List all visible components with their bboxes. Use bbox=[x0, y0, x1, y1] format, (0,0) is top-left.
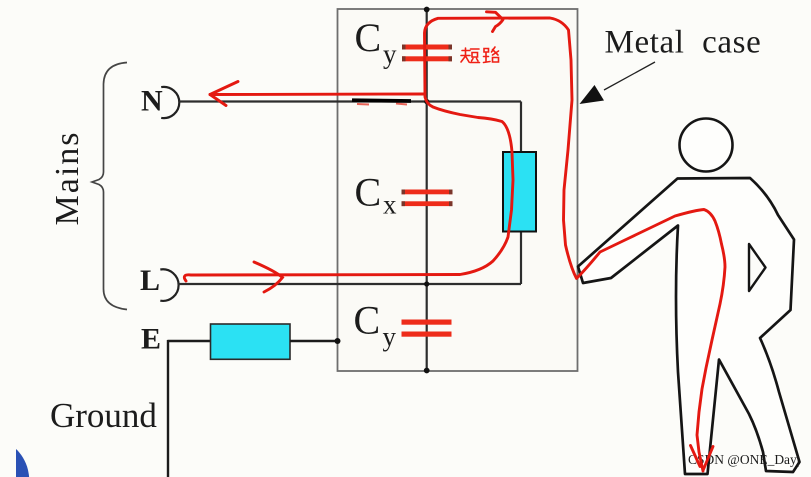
svg-text:C: C bbox=[355, 170, 382, 215]
capacitor Cy bottom (plates) bbox=[402, 320, 452, 337]
node: cap string at case top bbox=[424, 7, 430, 13]
metal case box (EMI filter enclosure) bbox=[338, 9, 578, 371]
svg-text:Metal case: Metal case bbox=[605, 25, 762, 61]
wire N (N terminal to inner circuit, top edge) bbox=[179, 100, 521, 102]
svg-text:Ground: Ground bbox=[50, 396, 157, 435]
black marker stroke over N wire bbox=[352, 100, 411, 104]
svg-text:C: C bbox=[354, 298, 381, 343]
label Cy bottom bbox=[354, 298, 397, 352]
person: head bbox=[680, 119, 733, 172]
inductor (cyan block) on earth line bbox=[211, 324, 291, 359]
label Cy top bbox=[355, 15, 398, 69]
node: cap string at case bottom bbox=[424, 368, 430, 374]
load block (cyan) on right branch bbox=[503, 152, 536, 232]
label 短路 (short circuit, drawn glyphs) bbox=[461, 47, 499, 63]
svg-text:L: L bbox=[140, 264, 160, 297]
wire load branch (right vertical of inner circuit) bbox=[520, 102, 522, 285]
node: earth connection to case bbox=[335, 338, 341, 344]
svg-text:E: E bbox=[141, 323, 161, 356]
svg-text:y: y bbox=[383, 322, 397, 352]
wire E to inductor bbox=[168, 340, 212, 342]
node: cap string at L wire bbox=[424, 281, 429, 286]
ground wire (vertical) bbox=[167, 340, 169, 477]
person: body outline bbox=[578, 178, 800, 474]
blue logo corner bbox=[16, 449, 29, 477]
svg-text:Mains: Mains bbox=[49, 131, 86, 226]
wire inductor to case bbox=[290, 340, 337, 342]
person: bent arm gap (triangle) bbox=[749, 244, 766, 291]
red current arrow out of N bbox=[210, 82, 425, 106]
capacitor Cy top (plates) bbox=[402, 45, 452, 62]
label Cx bbox=[355, 170, 398, 220]
svg-text:N: N bbox=[141, 85, 163, 118]
wire L (L terminal to inner circuit, bottom edge) bbox=[178, 283, 521, 285]
wire capacitor string (vertical through filter) bbox=[426, 9, 428, 371]
red current path: L line through Cy short to case and person bbox=[184, 18, 725, 471]
terminal N connector arc bbox=[161, 87, 179, 118]
pointer arrow to metal case bbox=[580, 62, 656, 104]
terminal L connector arc bbox=[160, 269, 178, 301]
svg-text:y: y bbox=[383, 39, 397, 69]
mains brace bbox=[92, 63, 127, 310]
red arrow head on L line bbox=[254, 262, 283, 292]
red arrow head at foot bbox=[691, 446, 714, 471]
red direction hook on top segment bbox=[487, 12, 504, 32]
svg-text:x: x bbox=[383, 190, 397, 220]
node: cap string at N wire bbox=[424, 99, 429, 104]
svg-text:C: C bbox=[355, 15, 382, 60]
capacitor Cx (plates) bbox=[402, 190, 453, 207]
